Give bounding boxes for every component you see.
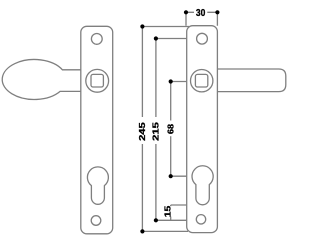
right spindle square hole bbox=[195, 74, 207, 87]
left bottom screw hole bbox=[91, 216, 101, 226]
dim 30 leader line bbox=[186, 11, 217, 13]
svg-text:15: 15 bbox=[164, 206, 173, 218]
right top screw hole bbox=[197, 33, 208, 44]
right bottom screw hole bbox=[196, 215, 205, 224]
svg-text:68: 68 bbox=[166, 124, 175, 134]
left spindle rose circle bbox=[86, 69, 109, 92]
svg-text:30: 30 bbox=[196, 7, 205, 18]
dim 68 connectors bbox=[171, 82, 187, 177]
left backplate bbox=[81, 26, 113, 234]
text gap masks bbox=[138, 117, 147, 144]
pad handle (left, oval knob) bbox=[2, 59, 81, 99]
dim 15 top connector bbox=[171, 204, 187, 206]
lever handle bar (right) bbox=[217, 69, 286, 92]
right backplate bbox=[187, 26, 218, 233]
dim 245 connectors bbox=[142, 27, 189, 232]
left euro cylinder keyhole bbox=[87, 167, 108, 204]
dim 215 connectors bbox=[156, 39, 187, 221]
svg-text:215: 215 bbox=[152, 121, 161, 140]
left spindle square hole bbox=[91, 74, 103, 87]
dim 215 line bbox=[155, 39, 157, 221]
right spindle rose circle bbox=[191, 70, 213, 92]
svg-text:245: 245 bbox=[139, 122, 148, 141]
left top screw hole bbox=[91, 34, 102, 45]
dim 68 line bbox=[170, 82, 172, 177]
right euro cylinder keyhole bbox=[192, 166, 213, 205]
dim 15 line bbox=[170, 205, 172, 220]
dim dots bbox=[184, 10, 188, 14]
dim 30 extension lines bbox=[186, 13, 217, 26]
dim 245 line bbox=[141, 27, 143, 232]
